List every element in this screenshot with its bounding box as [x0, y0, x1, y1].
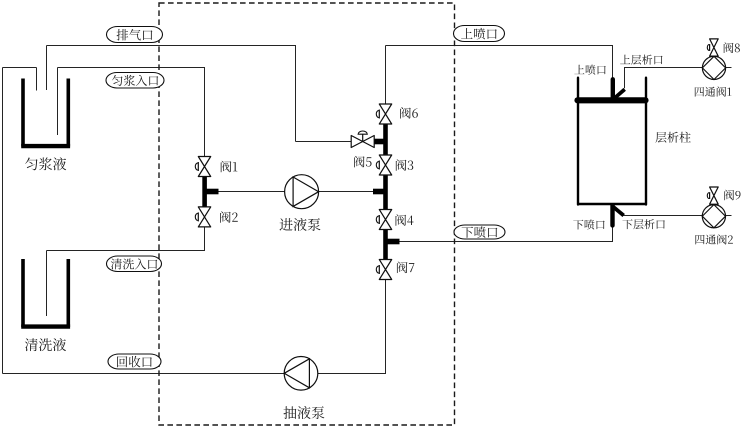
column bottom port 下喷口 nozzle — [610, 206, 614, 226]
valve 阀2 — [195, 207, 210, 227]
wire tank1 suction pipe — [57, 68, 59, 136]
label 层析柱 — [655, 132, 690, 143]
wire 回收口 line — [3, 373, 285, 375]
manifold 阀6-阀3 header — [383, 124, 388, 155]
wire 四通阀1 right stub — [726, 67, 732, 69]
wire 阀6 riser — [385, 46, 387, 105]
pump 进液泵 — [285, 175, 319, 209]
port capsule 回收口 — [108, 354, 161, 369]
port capsule 清洗入口 — [107, 256, 162, 272]
valve 阀6 — [376, 104, 391, 124]
wire 下喷口 line — [400, 227, 613, 242]
wire 上层析口 line — [625, 68, 703, 89]
label 四通阀1 — [695, 87, 732, 97]
label 阀8 — [724, 42, 740, 53]
wire 清洗入口 line — [47, 227, 205, 251]
tank 匀浆液 vessel — [21, 79, 70, 147]
manifold 阀3-阀4 header — [383, 175, 388, 210]
four-way valve 四通阀1 — [702, 56, 725, 79]
label 阀2 — [220, 211, 238, 223]
label 阀4 — [396, 214, 414, 226]
wire 上喷口 line — [386, 46, 613, 78]
tank 清洗液 vessel — [21, 259, 70, 327]
tee stub to 进液泵 — [205, 189, 219, 195]
label 清洗液 — [25, 338, 66, 351]
column bottom diagonal 下层析口 nozzle — [613, 207, 624, 216]
wire recovery return branch — [3, 67, 37, 69]
pump 抽液泵 — [284, 357, 318, 391]
valve 阀5 — [351, 131, 374, 147]
port capsule 匀浆入口 — [106, 73, 164, 89]
port capsule 上喷口 — [454, 26, 505, 42]
wire 排气口 line — [47, 46, 296, 142]
label 上喷口 at column — [574, 65, 605, 75]
wire tank2 suction pipe — [46, 251, 48, 317]
column 层析柱 walls — [578, 78, 646, 205]
four-way valve 四通阀2 — [702, 205, 725, 228]
valve 阀4 — [376, 210, 391, 230]
dashed system boundary — [159, 3, 455, 425]
valve 阀7 — [376, 260, 391, 280]
wire tank1 vent pipe — [46, 46, 48, 91]
valve 阀8 — [707, 39, 718, 56]
tee stub to 下喷口 — [386, 239, 400, 245]
label 进液泵 — [279, 218, 320, 231]
label 下层析口 — [622, 219, 664, 229]
wire tank1 return pipe — [36, 68, 38, 91]
tee stub from 阀5 — [374, 139, 386, 145]
label 阀1 — [221, 161, 238, 173]
wire left trunk — [2, 68, 4, 374]
port capsule 排气口 — [107, 27, 163, 43]
manifold 阀1-阀2 header — [202, 177, 207, 207]
label 阀9 — [724, 190, 740, 201]
wire pump2 outlet — [318, 280, 386, 374]
manifold 阀4-阀7 header — [383, 230, 388, 260]
column top diagonal 上层析口 nozzle — [614, 89, 625, 99]
label 四通阀2 — [695, 234, 732, 244]
label 下喷口 at column — [573, 219, 604, 229]
valve 阀1 — [195, 157, 210, 177]
wire 下层析口 line — [624, 215, 703, 217]
wire pump1 suction — [219, 191, 285, 193]
label 抽液泵 — [283, 406, 324, 419]
port capsule 下喷口 — [454, 225, 505, 239]
label 上层析口 — [620, 55, 662, 65]
wire 阀5 inlet — [296, 141, 352, 143]
valve 阀9 — [707, 187, 718, 204]
label 匀浆液 — [25, 157, 66, 170]
wire 四通阀2 right stub — [726, 215, 732, 217]
label 阀7 — [397, 262, 414, 274]
tee stub from 进液泵 — [373, 189, 386, 195]
wire pump1 discharge — [319, 191, 374, 193]
valve 阀3 — [376, 155, 391, 175]
column top cap — [578, 97, 646, 103]
label 阀3 — [396, 159, 413, 171]
column bottom plate — [577, 203, 647, 206]
wire 匀浆入口 line — [58, 68, 205, 157]
label 阀6 — [400, 107, 418, 119]
label 阀5 — [354, 156, 372, 168]
column top port 上喷口 nozzle — [611, 79, 615, 97]
